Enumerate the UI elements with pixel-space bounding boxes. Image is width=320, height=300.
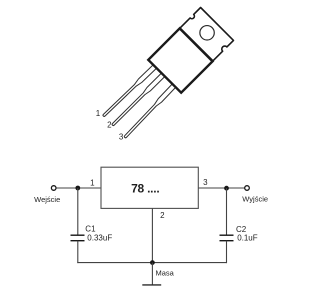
svg-text:1: 1 (96, 109, 101, 118)
wire: C1 bottom plate to ground rail (77, 241, 79, 263)
svg-text:78 ....: 78 .... (131, 182, 160, 196)
svg-text:0.33uF: 0.33uF (87, 233, 112, 242)
svg-text:Wejście: Wejście (34, 195, 60, 204)
svg-text:2: 2 (160, 211, 165, 220)
svg-text:0.1uF: 0.1uF (237, 234, 258, 243)
IC U1: 78xx regulator box (101, 167, 198, 208)
wire: regulator pin 2 down to ground node (151, 208, 153, 262)
svg-text:2: 2 (107, 121, 112, 130)
junction node: input / C1 (75, 186, 80, 191)
leg 3 (pin 3 lead) of TO-220 package (122, 81, 179, 138)
junction node: ground (150, 260, 155, 265)
ground rail wire C1 to C2 (77, 262, 227, 264)
TO-220 body (plastic case) (148, 28, 212, 92)
wire: C2 bottom plate to ground rail (226, 241, 228, 263)
svg-text:Masa: Masa (156, 269, 175, 278)
capacitor C2 plates (220, 235, 234, 241)
junction node: output / C2 (224, 186, 229, 191)
capacitor C1 plates (71, 235, 85, 241)
input terminal (open circle) (51, 186, 56, 191)
mounting hole (197, 23, 217, 43)
svg-text:1: 1 (90, 178, 95, 187)
wire: regulator pin 3 to output terminal (198, 187, 244, 189)
tab/body separator line (180, 29, 212, 61)
leg 1 (pin 1 lead) of TO-220 package (102, 62, 159, 119)
TO-220 metal tab with notches (180, 8, 234, 62)
leg 2 (pin 2 lead) of TO-220 package (111, 70, 168, 127)
svg-text:3: 3 (203, 178, 208, 187)
output terminal (open circle) (245, 186, 250, 191)
ground symbol stub (151, 263, 153, 285)
wire: C2 branch from output node down to C2 top plate (226, 188, 228, 235)
wire: input terminal to regulator pin 1 (56, 187, 101, 189)
ground symbol bar (142, 284, 161, 286)
svg-text:C1: C1 (85, 225, 96, 234)
svg-text:3: 3 (119, 132, 124, 141)
wire: C1 branch from input node down to C1 top plate (77, 188, 79, 235)
svg-text:Wyjście: Wyjście (242, 195, 268, 204)
